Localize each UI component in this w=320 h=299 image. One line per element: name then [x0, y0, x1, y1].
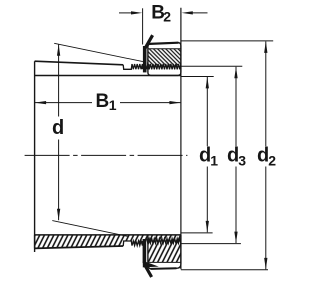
taper reference line (bottom, thin diagonal): [52, 221, 127, 237]
dimension d1 line (vertical, broken by label): [206, 77, 208, 146]
taper reference line (top, thin diagonal): [54, 43, 143, 61]
nut thread zigzag line (top): [147, 64, 181, 69]
nut top edge (thick): [150, 43, 179, 44]
svg-text:1: 1: [210, 153, 218, 169]
nut chamfer line (bottom): [148, 261, 181, 263]
dimension d line (vertical): [58, 44, 60, 116]
lock nut (top half) body outline: [148, 43, 181, 76]
nut hatched section (top, 45deg): [147, 49, 181, 70]
feature line d1 (top): [181, 76, 214, 78]
centerline (axis, dash-dot): [25, 154, 188, 156]
sleeve exposed thread (top): [132, 64, 143, 69]
sleeve outer taper edge (bottom, thick): [35, 246, 124, 248]
sleeve hatched section (bottom half): [35, 235, 181, 249]
dimension d2 line (vertical, broken by label): [265, 42, 267, 147]
sleeve bore line (bottom): [35, 234, 181, 236]
svg-text:3: 3: [238, 153, 246, 169]
feature line d2 (bottom, nut OD): [181, 269, 268, 271]
svg-text:2: 2: [268, 153, 276, 169]
lock nut (bottom half) body outline: [148, 235, 181, 269]
nut thread zigzag line (bottom): [147, 239, 181, 244]
sleeve (top half) outer taper edge: [35, 61, 124, 65]
sleeve thread undercut groove (top): [123, 64, 132, 69]
lock washer flange wedge (bottom): [143, 261, 159, 268]
sleeve thread undercut groove (bottom): [123, 241, 132, 246]
lock washer (bottom, edge view solid): [143, 239, 147, 263]
feature line d2 (top, nut OD): [181, 40, 273, 42]
lock washer (top, edge view solid): [143, 46, 147, 72]
sleeve left face / B1 left extension line: [34, 61, 36, 252]
svg-text:2: 2: [163, 9, 171, 25]
nut chamfer line (top): [148, 48, 181, 50]
sleeve left face (bottom): [34, 235, 36, 249]
sleeve exposed thread (bottom): [132, 241, 143, 246]
dimension B1 line and arrows: [35, 102, 92, 104]
lock washer bent tab (bottom): [144, 264, 151, 277]
feature line d3 (bottom): [181, 243, 241, 245]
svg-text:B: B: [96, 91, 110, 112]
nut right face / B1 B2 right extension line: [180, 8, 182, 270]
sleeve bore line (top): [35, 75, 181, 77]
nut hatched section (bottom): [147, 239, 181, 263]
lock washer bent tab (top): [145, 35, 153, 49]
svg-text:d: d: [52, 117, 64, 139]
dimension B2 arrow right: [190, 12, 208, 14]
nut bottom edge (thick): [151, 267, 177, 270]
feature line d1 (bottom): [181, 232, 213, 234]
dimension d3 line (vertical, broken by label): [235, 67, 237, 146]
feature line d3 (top): [181, 65, 242, 67]
svg-text:1: 1: [109, 97, 117, 113]
dimension B2 left extension line: [142, 8, 144, 44]
dimension B2 arrow left: [119, 12, 134, 14]
